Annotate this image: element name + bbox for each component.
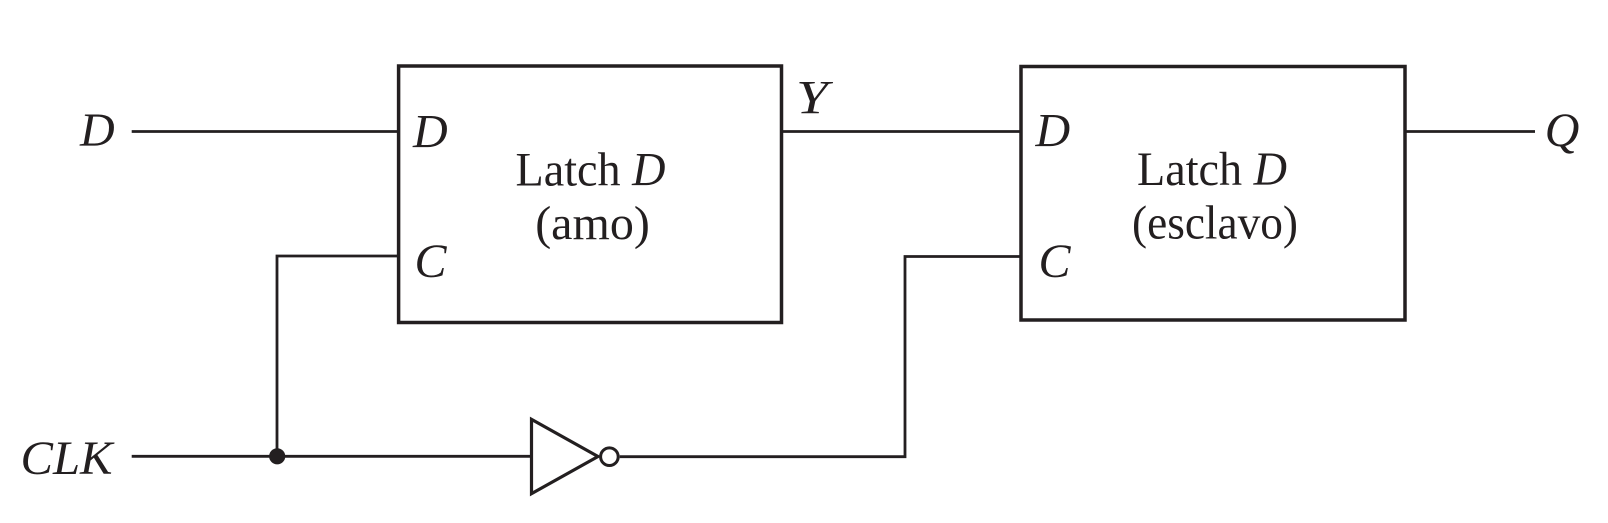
svg-text:C: C xyxy=(415,235,448,288)
svg-text:D: D xyxy=(1035,104,1071,157)
junction dot on CLK xyxy=(269,448,285,464)
svg-text:(amo): (amo) xyxy=(535,197,650,250)
svg-text:D: D xyxy=(412,106,448,159)
svg-text:(esclavo): (esclavo) xyxy=(1132,197,1298,250)
wire D input xyxy=(132,130,399,133)
inverter U3 triangle xyxy=(532,419,599,493)
svg-text:CLK: CLK xyxy=(21,432,116,485)
svg-text:Y: Y xyxy=(796,72,833,125)
svg-text:Latch D: Latch D xyxy=(1137,143,1287,196)
wire Q output xyxy=(1405,130,1535,133)
latch U2 (esclavo) box xyxy=(1021,67,1405,321)
wire CLK to C of U1 (vertical + horizontal) xyxy=(277,256,399,456)
svg-text:C: C xyxy=(1039,235,1072,288)
latch U1 (amo) box xyxy=(399,66,782,323)
svg-text:Latch D: Latch D xyxy=(516,143,666,196)
svg-text:D: D xyxy=(79,104,115,157)
inverter U3 bubble xyxy=(601,448,619,466)
wire inverter out to C of U2 xyxy=(620,257,1021,457)
svg-text:Q: Q xyxy=(1545,104,1580,157)
wire Y (U1 out to U2 D in) xyxy=(782,130,1022,133)
wire CLK horizontal xyxy=(132,455,532,458)
